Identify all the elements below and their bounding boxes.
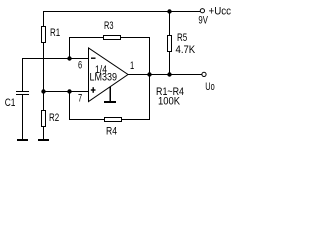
svg-text:R3: R3 <box>104 20 114 32</box>
svg-text:R5: R5 <box>177 32 187 44</box>
ground at op-amp bottom <box>109 87 111 102</box>
ground below C1 <box>17 139 28 141</box>
svg-text:9V: 9V <box>198 15 208 27</box>
svg-text:4.7K: 4.7K <box>176 44 196 56</box>
svg-text:LM339: LM339 <box>90 72 118 84</box>
svg-text:6: 6 <box>78 60 82 72</box>
svg-text:100K: 100K <box>158 96 181 108</box>
resistor R5 <box>168 36 172 52</box>
svg-text:C1: C1 <box>5 97 16 109</box>
svg-text:1: 1 <box>130 60 134 72</box>
capacitor C1 <box>16 91 29 92</box>
wire R5 pull-up column <box>169 11 171 74</box>
node inverting input junction dot <box>67 56 71 60</box>
resistor R1 <box>42 27 46 43</box>
plus input sign <box>91 89 96 90</box>
terminal +Ucc <box>200 9 204 13</box>
svg-text:R4: R4 <box>106 126 117 138</box>
resistor R4 <box>105 118 122 122</box>
ground below R2 <box>38 139 49 141</box>
resistor R3 <box>104 36 121 40</box>
wire non-inverting input <box>43 91 89 93</box>
wire feedback column right <box>149 37 151 120</box>
terminal Uo <box>202 72 206 76</box>
wire top rail Vcc <box>43 11 201 13</box>
svg-text:R2: R2 <box>49 112 59 124</box>
node R5/output dot <box>167 72 171 76</box>
node Vcc junction dot (R5 to top rail) <box>167 9 171 13</box>
svg-text:Uo: Uo <box>205 81 214 93</box>
wire feedback R3 branch up <box>69 37 71 58</box>
node non-inverting input junction dot <box>67 89 71 93</box>
svg-text:7: 7 <box>78 93 82 105</box>
minus input sign <box>91 58 96 59</box>
node feedback/output dot <box>147 72 151 76</box>
svg-text:+Ucc: +Ucc <box>209 6 232 18</box>
wire feedback R4 branch down <box>69 91 71 120</box>
resistor R2 <box>42 111 46 127</box>
node divider midpoint dot <box>41 89 45 93</box>
wire output <box>128 74 203 76</box>
svg-text:R1: R1 <box>50 27 60 39</box>
wire R1/R2 divider column <box>43 11 45 139</box>
wire C1 to inverting input <box>22 58 89 60</box>
op-amp U1 1/4 LM339 <box>89 48 129 102</box>
